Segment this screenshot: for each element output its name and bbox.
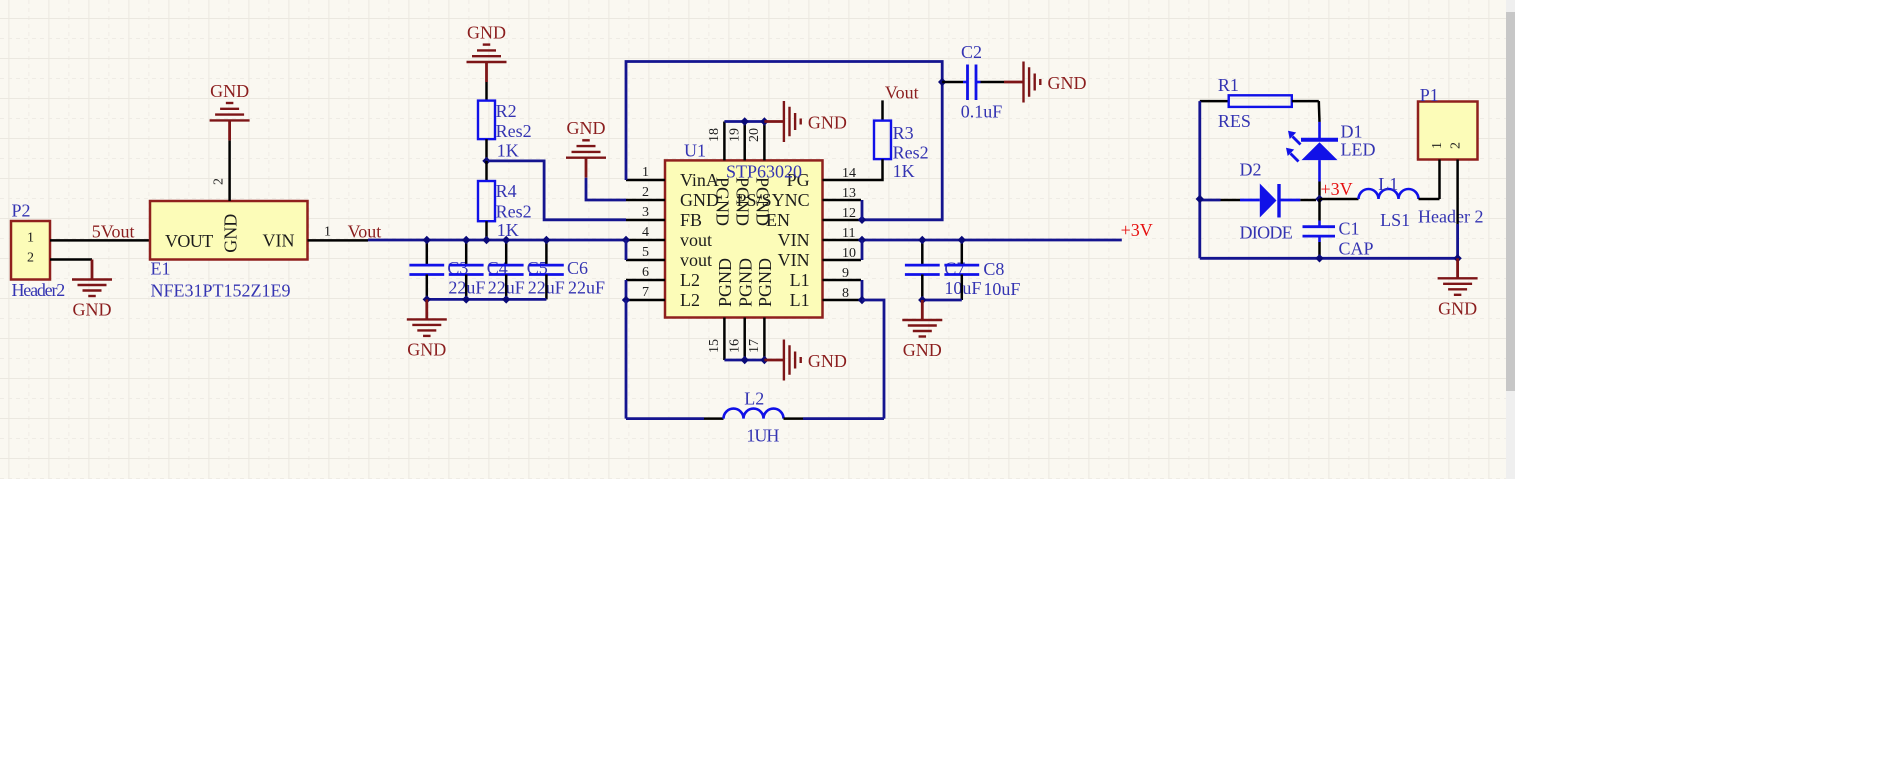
junction C1 bottom	[1315, 254, 1323, 262]
junction left branch at D2	[1196, 195, 1204, 203]
wire L2 loop bottom left segment	[626, 417, 704, 420]
svg-text:10uF: 10uF	[983, 279, 1020, 299]
svg-text:Vout: Vout	[885, 83, 919, 103]
junction R4 on bus	[482, 236, 490, 244]
svg-text:6: 6	[642, 265, 649, 280]
svg-text:vout: vout	[680, 230, 712, 250]
capacitor C1 CAP	[1303, 199, 1374, 259]
junctions C7 C8 on rail	[918, 236, 966, 244]
svg-text:D2: D2	[1240, 160, 1262, 180]
svg-text:Res2: Res2	[496, 121, 532, 141]
junction U1 pin11	[858, 236, 866, 244]
ground bus below C3..C6	[423, 295, 547, 303]
svg-text:12: 12	[842, 206, 856, 221]
svg-text:R3: R3	[893, 123, 914, 143]
wire P1 pin2 to ground rail	[1456, 224, 1459, 258]
U1 top pins 18-20	[707, 122, 764, 161]
capacitor C6 22uF	[529, 240, 605, 299]
svg-text:11: 11	[842, 226, 855, 241]
wire bottom rail right section	[1200, 257, 1458, 260]
inductor L1 LS1	[1320, 174, 1440, 230]
U1 rotated PGND pin names top	[712, 177, 772, 226]
editor vertical scrollbar	[1506, 0, 1515, 479]
wire GND to U1 pin2	[586, 178, 626, 200]
wire pin4 to pin5	[625, 240, 628, 260]
svg-text:13: 13	[842, 186, 856, 201]
svg-text:+3V: +3V	[1121, 220, 1153, 240]
wire joining bottom pins 15-17	[724, 356, 768, 364]
U1 left pin names	[680, 170, 719, 310]
svg-text:L2: L2	[680, 270, 700, 290]
svg-text:vout: vout	[680, 250, 712, 270]
U1 right pins 8-14	[823, 166, 862, 301]
wire pin13 to pin12	[861, 200, 864, 220]
junction +3V node	[1315, 195, 1323, 203]
svg-text:4: 4	[642, 225, 649, 240]
capacitor C2 0.1uF	[942, 42, 1004, 122]
svg-text:GND: GND	[221, 214, 241, 253]
LED D1	[1286, 101, 1376, 199]
svg-text:LS1: LS1	[1380, 210, 1410, 230]
svg-text:FB: FB	[680, 210, 702, 230]
svg-text:P1: P1	[1420, 85, 1439, 105]
svg-text:GND: GND	[407, 339, 446, 359]
svg-text:GND: GND	[808, 113, 847, 133]
svg-text:15: 15	[707, 339, 722, 353]
ground GND below C7	[902, 300, 942, 360]
wire +3V output rail	[862, 239, 1122, 242]
U1 bottom pins 15-17	[707, 318, 764, 361]
svg-text:L2: L2	[680, 290, 700, 310]
capacitor C8 10uF	[944, 240, 1020, 300]
schematic sheet background	[0, 0, 1506, 479]
capacitor C3 22uF	[409, 240, 485, 299]
junction at U1 pin12	[858, 216, 866, 224]
svg-text:+3V: +3V	[1321, 179, 1353, 199]
svg-text:5: 5	[642, 245, 649, 260]
pin 2 of E1 (top)	[212, 140, 230, 201]
svg-text:Res2: Res2	[893, 143, 929, 163]
svg-text:GND: GND	[210, 81, 249, 101]
inductor L2 1UH	[704, 388, 803, 445]
pin 1 of P1	[1438, 160, 1441, 200]
wire left branch R1 to D2 to bottom rail	[1198, 101, 1201, 258]
wire U1 pin1 to top rail to EN/SYNC loop	[626, 62, 942, 220]
svg-text:VIN: VIN	[263, 231, 295, 251]
svg-text:PGND: PGND	[752, 177, 772, 226]
ground GND right of C2	[1004, 62, 1087, 103]
wire pin11 to pin10	[861, 240, 864, 260]
svg-text:GND: GND	[1048, 73, 1087, 93]
svg-text:DIODE: DIODE	[1240, 223, 1293, 243]
pin 1 of E1 (VIN) with stub	[308, 225, 369, 241]
wire L2 loop bottom right segment	[803, 417, 884, 420]
svg-text:PGND: PGND	[712, 177, 732, 226]
svg-text:P2: P2	[12, 201, 31, 221]
svg-text:10: 10	[842, 246, 856, 261]
svg-text:LED: LED	[1341, 140, 1376, 160]
svg-text:0.1uF: 0.1uF	[961, 102, 1003, 122]
svg-text:18: 18	[707, 128, 722, 142]
svg-text:L1: L1	[790, 270, 810, 290]
svg-text:1: 1	[27, 231, 34, 246]
svg-text:C6: C6	[567, 258, 588, 278]
svg-text:Header2: Header2	[12, 280, 65, 300]
ground GND above R2	[467, 23, 507, 83]
svg-text:L1: L1	[790, 290, 810, 310]
U1 left pins 1-7	[626, 165, 665, 300]
wire pin7 down to L2 loop left side	[625, 300, 628, 419]
svg-text:3: 3	[642, 205, 649, 220]
resistor R3	[861, 100, 929, 181]
connector P1 body	[1418, 85, 1478, 160]
wire pin8 down to L2 loop right side	[862, 300, 884, 419]
svg-text:R1: R1	[1218, 75, 1239, 95]
svg-text:NFE31PT152Z1E9: NFE31PT152Z1E9	[151, 280, 291, 300]
wire R2/R4 node to U1 pin3 (FB)	[487, 161, 627, 220]
resistor R1 RES	[1200, 75, 1319, 131]
svg-text:5Vout: 5Vout	[92, 221, 135, 241]
U1 rotated PGND pin names bottom	[715, 162, 802, 308]
wire joining top pins 18-20	[724, 117, 768, 125]
filter E1 body NFE31PT152Z1E9	[150, 201, 308, 300]
svg-text:2: 2	[27, 250, 34, 265]
diode D2 DIODE	[1221, 160, 1317, 243]
wire E1 VIN to U1 pin4 main bus	[368, 239, 626, 242]
junctions of C3..C6 on main bus	[423, 236, 551, 244]
svg-text:1K: 1K	[497, 220, 519, 240]
svg-text:PGND: PGND	[715, 258, 735, 307]
junction at P1 ground	[1453, 254, 1461, 262]
svg-text:L2: L2	[744, 388, 764, 408]
svg-text:GND: GND	[808, 351, 847, 371]
svg-text:VIN: VIN	[778, 250, 810, 270]
IC U1 STP63020 body	[665, 141, 823, 318]
svg-text:VIN: VIN	[778, 230, 810, 250]
svg-text:1K: 1K	[497, 141, 519, 161]
pin 2 of P1	[1456, 160, 1459, 225]
junction R2-R4 node	[482, 157, 490, 165]
svg-text:CAP: CAP	[1339, 239, 1374, 259]
svg-text:PGND: PGND	[735, 258, 755, 307]
svg-text:2: 2	[642, 185, 649, 200]
svg-text:7: 7	[642, 285, 649, 300]
junction U1 pin8	[858, 296, 866, 304]
svg-text:1K: 1K	[893, 161, 915, 181]
svg-text:9: 9	[842, 266, 849, 281]
svg-text:GND: GND	[567, 118, 606, 138]
svg-text:PGND: PGND	[755, 258, 775, 307]
svg-text:RES: RES	[1218, 111, 1251, 131]
svg-text:D1: D1	[1341, 121, 1363, 141]
U1 right pin names	[737, 170, 810, 310]
wire P2 pin2	[50, 258, 92, 261]
svg-text:R2: R2	[496, 101, 517, 121]
svg-text:2: 2	[1449, 142, 1464, 149]
svg-text:R4: R4	[496, 181, 517, 201]
svg-text:22uF: 22uF	[568, 277, 605, 297]
svg-text:Res2: Res2	[496, 202, 532, 222]
capacitor C4 22uF	[449, 240, 525, 299]
ground GND below capacitor bank	[407, 299, 447, 359]
svg-text:C8: C8	[983, 259, 1004, 279]
wire P2 pin1 to E1 VOUT	[50, 239, 150, 242]
junction U1 pin7	[622, 296, 630, 304]
svg-text:17: 17	[747, 339, 762, 353]
capacitor C7 10uF	[905, 240, 982, 300]
resistor R2	[478, 82, 532, 161]
svg-text:1: 1	[324, 225, 331, 240]
svg-text:1: 1	[1430, 142, 1445, 149]
svg-text:C2: C2	[961, 42, 982, 62]
svg-text:8: 8	[842, 286, 849, 301]
ground GND above E1	[210, 81, 250, 140]
ground GND at bottom pins	[764, 340, 847, 381]
capacitor C5 22uF	[489, 240, 565, 299]
svg-text:16: 16	[727, 339, 742, 353]
svg-text:2: 2	[212, 178, 227, 185]
svg-text:U1: U1	[684, 141, 706, 161]
svg-text:STP63020: STP63020	[726, 162, 802, 182]
connector P2 body	[11, 201, 64, 300]
junction at C2 tap	[938, 78, 946, 86]
svg-text:20: 20	[747, 128, 762, 142]
svg-text:GND: GND	[903, 340, 942, 360]
svg-text:GND: GND	[1438, 298, 1477, 318]
svg-text:1: 1	[642, 165, 649, 180]
ground GND at U1 pin2	[566, 118, 606, 178]
svg-text:Header 2: Header 2	[1418, 206, 1483, 226]
svg-text:19: 19	[727, 128, 742, 142]
svg-text:Vout: Vout	[348, 221, 382, 241]
ground GND at top pins	[764, 101, 847, 142]
svg-text:C1: C1	[1339, 219, 1360, 239]
wire C7-C8 bottoms	[918, 296, 962, 304]
svg-text:E1: E1	[151, 259, 171, 279]
ground GND below P1	[1438, 258, 1478, 318]
svg-text:VOUT: VOUT	[165, 231, 213, 251]
wire pin6 to pin7	[625, 280, 628, 300]
svg-text:1UH: 1UH	[746, 425, 779, 445]
svg-text:PGND: PGND	[733, 177, 753, 226]
svg-text:14: 14	[842, 166, 856, 181]
svg-text:L1: L1	[1378, 174, 1398, 194]
resistor R4	[478, 161, 532, 240]
svg-text:GND: GND	[467, 23, 506, 43]
ground GND at P2	[72, 260, 112, 320]
svg-text:GND: GND	[73, 300, 112, 320]
junction U1 pin4 on bus	[622, 236, 630, 244]
wire pin9 to pin8	[861, 280, 864, 300]
